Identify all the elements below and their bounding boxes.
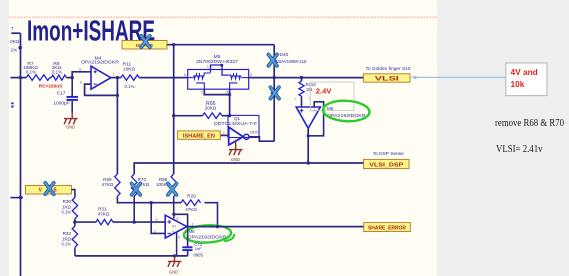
output wire to SHARE_ERROR: [187, 226, 364, 228]
svg-text:V+: V+: [172, 225, 176, 229]
junction GND: [173, 254, 176, 257]
ground (lower): [168, 256, 182, 267]
X mark on VS label: [45, 183, 54, 194]
title Imon+ISHARE: [27, 16, 155, 48]
node junction C17 tap: [71, 76, 74, 79]
jog wire to output: [174, 214, 188, 226]
M5 pin 6: [184, 72, 187, 77]
capacitor C17 1000pF: [53, 78, 78, 113]
wire R7-R8: [50, 77, 52, 79]
svg-text:2N7002DW H6327: 2N7002DW H6327: [196, 59, 238, 64]
svg-text:0.1%: 0.1%: [26, 69, 36, 74]
To DSP Sense note: [373, 151, 404, 157]
svg-text:4V and: 4V and: [511, 67, 538, 77]
resistor R69 47K: [102, 174, 121, 196]
wire R29 right to output: [205, 203, 218, 227]
resistor R118 0ohm: [299, 76, 316, 107]
left border bus wire: [20, 33, 22, 276]
junction R66 right: [228, 114, 231, 117]
M5 left FET: [188, 73, 211, 89]
junction V+ node: [172, 213, 175, 216]
pin 5: [79, 67, 82, 72]
svg-text:M6: M6: [327, 106, 334, 111]
To Golden finger S10 note: [365, 66, 410, 72]
pin 7: [112, 71, 115, 76]
annotation arrow (light blue): [411, 75, 506, 79]
ground (C17): [64, 113, 78, 125]
svg-text:1nF: 1nF: [195, 246, 202, 251]
junction pin2 feed: [150, 201, 153, 204]
note 2.4V: [316, 87, 333, 96]
M4 output wire: [111, 77, 121, 79]
VLSI net label: [364, 74, 410, 83]
stub junction: [228, 93, 231, 96]
feedback junction: [307, 134, 310, 137]
output junction: [116, 76, 119, 79]
note remove R68 R70: [495, 118, 564, 129]
ISHARE net label (crossed out): [122, 41, 167, 50]
resistor R7 158K: [23, 61, 50, 81]
wire R30 to R33 node: [74, 219, 76, 226]
junction ISHARE bus: [172, 43, 175, 46]
annotation note box 4V and 10k: [506, 63, 547, 96]
M6 part outline (gray): [310, 82, 354, 111]
junction R70 bottom: [133, 220, 136, 223]
svg-text:GND: GND: [66, 125, 75, 130]
junction M6 out on DSP wire: [307, 161, 310, 164]
svg-text:C17: C17: [57, 91, 66, 97]
svg-text:To DSP Sense: To DSP Sense: [373, 151, 404, 157]
R33 lead to bottom wire: [74, 248, 76, 256]
svg-text:47KΩ: 47KΩ: [102, 182, 114, 187]
svg-text:DDTC143XUA-7-F: DDTC143XUA-7-F: [214, 121, 257, 126]
svg-text:R29: R29: [187, 193, 196, 198]
wire R11 to M5: [139, 77, 188, 79]
note VLSI=2.41v: [496, 143, 543, 155]
svg-text:VLSI_DSP: VLSI_DSP: [369, 162, 403, 168]
X mark on D40 top: [268, 55, 277, 66]
resistor R66 20K: [203, 101, 222, 118]
bridge junction: [220, 64, 223, 67]
R70 lead down: [133, 196, 135, 222]
M6 ref text: [327, 106, 366, 119]
M5 right FET: [228, 73, 248, 89]
M6 feedback wire: [308, 102, 323, 136]
resistor R29 47K: [181, 193, 200, 211]
M4 feedback wire: [85, 84, 118, 95]
VS net label (crossed out): [25, 185, 71, 194]
svg-text:0.1%: 0.1%: [61, 210, 71, 215]
svg-text:2: 2: [223, 131, 225, 135]
wire: left entry to R7: [11, 77, 27, 79]
Q1 pin 2: [223, 131, 225, 135]
svg-text:SHARE_ERROR: SHARE_ERROR: [368, 226, 406, 232]
wire R31 input: [75, 221, 96, 223]
resistor R70 47K (crossed out): [132, 174, 150, 196]
svg-text:0Ω: 0Ω: [307, 87, 313, 92]
svg-text:47KΩ: 47KΩ: [98, 212, 110, 217]
wire ISHARE_EN to Q1: [220, 134, 228, 136]
svg-text:D40: D40: [280, 52, 289, 58]
wire R69 bottom to R29 (node W1): [117, 196, 181, 203]
M6 output wire down: [307, 128, 309, 163]
junction R30/R31/R33: [73, 220, 76, 223]
wire M4 output down to R69: [116, 78, 118, 174]
svg-text:VLSI= 2.41v: VLSI= 2.41v: [496, 143, 543, 155]
resistor R31 47K: [96, 207, 113, 225]
ground (Q1): [229, 141, 243, 155]
partial resistor R?7 at sheet edge: [10, 26, 22, 53]
wire bus to R66: [174, 115, 203, 117]
VLSI_DSP net label: [364, 159, 409, 168]
resistor R11 10K: [121, 62, 139, 89]
wire M5 pin3 to VLSI: [249, 77, 364, 79]
wire R66 to Q1 drop: [222, 115, 230, 117]
svg-text:ISHARE_EN: ISHARE_EN: [183, 134, 215, 140]
svg-text:20KΩ: 20KΩ: [205, 106, 217, 111]
svg-text:1000pF: 1000pF: [53, 100, 69, 106]
junction R66 on bus: [172, 114, 175, 117]
svg-text:5: 5: [295, 97, 297, 101]
lower op-amp pin numbers: [154, 216, 195, 240]
junction R29 feedback: [216, 225, 219, 228]
filter capacitor: [182, 227, 203, 258]
svg-text:GND: GND: [169, 269, 178, 274]
pink dashed sheet border: [9, 16, 437, 18]
op-amp M4 OPA2192IDGKR: [81, 56, 120, 90]
border tick to VS: [10, 197, 23, 199]
schematic cream sheet: [9, 0, 437, 276]
M5 bottom stubs and bridge: [204, 89, 229, 115]
M5 pin 5: [226, 90, 229, 95]
svg-text:7: 7: [11, 26, 14, 32]
X mark on D40 bottom: [270, 87, 279, 98]
junction D40 tap: [273, 76, 276, 79]
green circle (M6): [323, 100, 370, 123]
svg-text:2.4V: 2.4V: [316, 87, 333, 96]
SHARE_ERROR net label: [364, 223, 411, 232]
wire VS label to R30: [71, 190, 75, 198]
svg-text:remove R68 & R70: remove R68 & R70: [495, 118, 564, 129]
svg-text:BAV199W-115: BAV199W-115: [278, 59, 307, 64]
junction on bus: [19, 196, 22, 199]
svg-text:0.1%: 0.1%: [52, 69, 62, 74]
svg-text:1%: 1%: [11, 48, 18, 53]
wire R31 to pin 3: [113, 221, 165, 223]
svg-text:10KΩ: 10KΩ: [123, 66, 136, 72]
svg-text:V-: V-: [172, 230, 175, 234]
R68 lead down: [173, 196, 175, 214]
ISHARE_EN net label: [178, 131, 221, 140]
D40 vertical wire: [273, 45, 275, 142]
M5 top bridge wire: [211, 65, 229, 75]
digital transistor Q1 DDTC143XUA: [214, 115, 259, 145]
resistor R8 2K: [51, 61, 66, 80]
M5 pin 3: [250, 72, 253, 77]
bottom return wire: [75, 255, 188, 257]
wire R8 to node: [66, 77, 72, 79]
svg-text:To Golden finger S10: To Golden finger S10: [365, 66, 410, 72]
svg-text:GND: GND: [231, 157, 240, 162]
svg-text:0KΩ: 0KΩ: [10, 39, 20, 45]
M5 pin 1: [207, 63, 210, 68]
resistor R30 1K: [61, 198, 77, 219]
pin 6: [80, 80, 83, 85]
op-amp M6 (top, pointing down): [295, 97, 321, 128]
M5 pin 2: [201, 90, 204, 95]
border tick marks: [11, 102, 13, 107]
svg-text:R30: R30: [63, 199, 72, 204]
diode D40 BAV199W (crossed out): [271, 52, 307, 94]
svg-text:47KΩ: 47KΩ: [185, 207, 197, 212]
svg-text:0805: 0805: [194, 253, 204, 258]
resistor R68 100K (crossed out): [156, 174, 176, 196]
svg-text:OPA2192IDGKR: OPA2192IDGKR: [188, 235, 228, 240]
pin 4 stub: [176, 232, 178, 256]
svg-text:OUT: OUT: [250, 130, 259, 134]
junction on bus: [19, 76, 22, 79]
svg-text:10k: 10k: [511, 79, 525, 89]
wire W1 down to pin 2: [151, 203, 165, 234]
svg-text:OPA2192IDGKR: OPA2192IDGKR: [81, 59, 120, 64]
svg-text:R33: R33: [63, 231, 72, 236]
dual MOSFET M5 2N7002DW: [188, 54, 249, 89]
svg-text:0.1%: 0.1%: [124, 84, 134, 89]
svg-text:VLSI: VLSI: [375, 76, 400, 82]
resistor R33 1K: [61, 226, 77, 247]
wire ISHARE label to D40 drop: [167, 44, 274, 46]
pin 8 stub: [173, 214, 175, 218]
note RC=160uS: [39, 83, 63, 89]
Q1 out wire: [249, 137, 274, 141]
X mark on ISHARE label: [141, 36, 150, 47]
X mark on R70: [132, 184, 141, 195]
svg-text:RC=160uS: RC=160uS: [39, 83, 63, 89]
feedback junction: [116, 94, 119, 97]
op-amp M6B (lower): [165, 215, 187, 238]
wire jog up to op-amp +in: [72, 72, 91, 78]
vertical ISHARE bus down to R68: [173, 45, 175, 174]
green circle (lower M6): [183, 224, 234, 244]
lower op-amp ref (circled): [188, 229, 228, 240]
svg-text:0.1%: 0.1%: [61, 242, 71, 247]
X mark on R68: [168, 184, 177, 195]
wire to VLSI_DSP: [134, 163, 363, 174]
